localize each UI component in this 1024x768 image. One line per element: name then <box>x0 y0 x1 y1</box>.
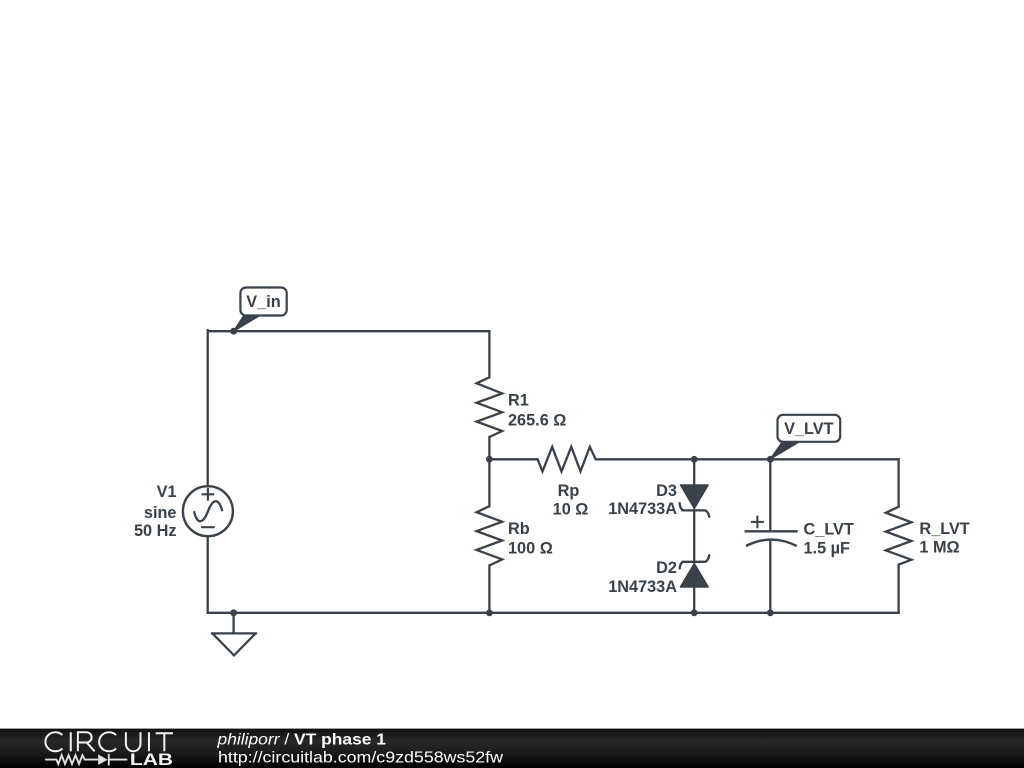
svg-text:D2: D2 <box>656 559 677 577</box>
capacitor C_LVT <box>745 516 798 546</box>
footer bar <box>0 729 1024 768</box>
junction dot zener top <box>691 456 698 463</box>
wire left <box>207 330 209 486</box>
svg-text:C_LVT: C_LVT <box>804 521 854 539</box>
wire middle right <box>596 458 899 460</box>
resistor R_LVT <box>886 507 912 565</box>
wire Rb top stub <box>488 459 490 506</box>
node V_LVT <box>767 415 840 463</box>
svg-text:V_in: V_in <box>246 293 280 311</box>
junction dot ground <box>230 609 237 616</box>
junction dot node mid bottom <box>486 609 493 616</box>
wire right vertical bottom <box>897 565 899 613</box>
svg-text:1.5 µF: 1.5 µF <box>804 540 851 558</box>
svg-text:50 Hz: 50 Hz <box>134 522 177 540</box>
label C_LVT value <box>804 521 854 558</box>
wire Rb bottom stub <box>488 566 490 613</box>
svg-text:http://circuitlab.com/c9zd558w: http://circuitlab.com/c9zd558ws52fw <box>218 749 504 766</box>
wire bottom <box>208 612 899 614</box>
node V_in <box>230 288 286 335</box>
svg-text:philiporr / VT phase 1: philiporr / VT phase 1 <box>216 732 386 749</box>
svg-text:Rb: Rb <box>508 520 530 538</box>
wire zener middle <box>693 510 695 561</box>
resistor R1 <box>477 377 503 437</box>
wire top <box>208 330 490 332</box>
resistor Rp <box>538 447 596 472</box>
ground <box>211 613 257 656</box>
wire middle left <box>489 458 537 460</box>
svg-text:LAB: LAB <box>130 751 173 768</box>
svg-text:1N4733A: 1N4733A <box>608 578 677 596</box>
label D2 value <box>608 559 677 596</box>
svg-text:R_LVT: R_LVT <box>919 520 969 538</box>
label V1 value <box>134 483 177 540</box>
junction dot zener bottom <box>691 609 698 616</box>
svg-text:265.6 Ω: 265.6 Ω <box>508 411 566 429</box>
label R_LVT value <box>919 520 969 557</box>
svg-text:10 Ω: 10 Ω <box>553 501 589 519</box>
svg-text:V_LVT: V_LVT <box>784 420 834 438</box>
wire capacitor bottom <box>769 540 771 613</box>
svg-text:1 MΩ: 1 MΩ <box>919 539 959 557</box>
resistor Rb <box>477 506 503 565</box>
zener diode D3 <box>680 485 710 517</box>
label D3 value <box>608 482 677 518</box>
label R1 value <box>508 391 566 429</box>
svg-text:100 Ω: 100 Ω <box>508 539 553 557</box>
voltage source V1 <box>183 486 233 536</box>
junction dot node mid <box>486 456 493 463</box>
svg-text:V1: V1 <box>157 483 177 501</box>
junction dot cap bottom <box>767 609 774 616</box>
svg-text:Rp: Rp <box>558 482 580 500</box>
svg-text:sine: sine <box>144 504 177 522</box>
wire V1 bottom <box>207 536 209 613</box>
zener diode D2 <box>680 555 710 587</box>
wire right vertical top <box>897 459 899 507</box>
wire capacitor top <box>769 459 771 531</box>
svg-text:1N4733A: 1N4733A <box>608 500 677 518</box>
svg-text:R1: R1 <box>508 391 529 409</box>
wire zener branch top <box>693 459 695 485</box>
wire zener bottom <box>693 587 695 613</box>
wire R1 top stub <box>488 331 490 377</box>
svg-text:D3: D3 <box>656 482 677 500</box>
label Rb value <box>508 520 553 557</box>
label Rp value <box>553 482 589 518</box>
wire R1 bottom stub <box>488 437 490 459</box>
CircuitLab logo <box>45 732 173 768</box>
